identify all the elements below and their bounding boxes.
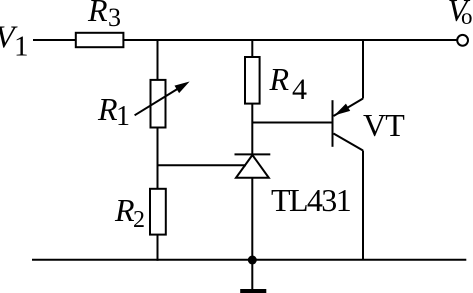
svg-text:1: 1 <box>14 31 29 63</box>
svg-text:R: R <box>269 61 290 97</box>
svg-text:VT: VT <box>363 107 405 143</box>
svg-text:R: R <box>114 192 135 228</box>
svg-text:R: R <box>87 0 108 28</box>
svg-text:R: R <box>97 91 118 127</box>
svg-text:3: 3 <box>108 3 121 32</box>
svg-text:1: 1 <box>116 101 130 132</box>
svg-text:4: 4 <box>292 73 307 106</box>
svg-text:TL431: TL431 <box>271 182 351 218</box>
svg-text:2: 2 <box>133 207 145 233</box>
svg-text:o: o <box>461 4 473 29</box>
